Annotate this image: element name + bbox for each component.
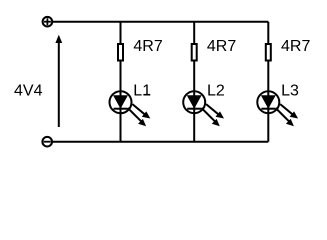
resistor R3 (4R7)	[266, 44, 271, 61]
wire branch 3 vertical	[267, 22, 269, 142]
svg-text:4R7: 4R7	[281, 38, 310, 55]
LED L3	[257, 91, 298, 126]
LED L1	[110, 91, 151, 126]
node - terminal (negative supply)	[42, 137, 52, 147]
svg-text:4R7: 4R7	[207, 38, 236, 55]
resistor R1 (4R7)	[118, 44, 123, 61]
svg-text:L1: L1	[133, 83, 151, 100]
node + terminal (positive supply)	[43, 17, 53, 27]
svg-text:4R7: 4R7	[133, 38, 162, 55]
wire branch 2 vertical	[193, 22, 195, 142]
LED L2	[183, 91, 224, 126]
svg-text:L2: L2	[207, 83, 225, 100]
wire: top rail	[52, 21, 268, 23]
svg-text:4V4: 4V4	[14, 83, 43, 100]
svg-text:L3: L3	[281, 83, 299, 100]
resistor R2 (4R7)	[192, 44, 197, 61]
serif foot of digit 1 in L1	[143, 94, 150, 96]
voltage arrow 4V4	[55, 35, 62, 127]
wire: bottom rail	[52, 141, 268, 143]
wire branch 1 vertical	[120, 22, 122, 142]
